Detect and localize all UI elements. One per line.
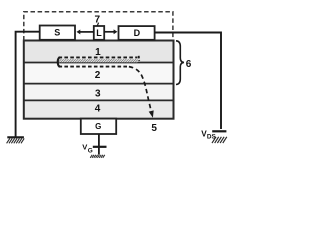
tick 7 to L [97,23,98,26]
ground left bar [7,136,24,138]
L box [94,26,104,40]
svg-text:5: 5 [151,123,157,134]
channel hatch strip [59,59,138,62]
VDS bar [212,130,226,132]
wire S to left [16,32,40,138]
svg-text:G: G [95,122,101,131]
svg-text:3: 3 [95,89,101,100]
layer 4 fill [24,100,174,118]
VDS ground hatch [212,137,227,143]
channel top dashed line [59,56,138,58]
svg-text:1: 1 [95,47,101,58]
G box [81,119,116,134]
arrow L to S [80,31,94,33]
svg-text:4: 4 [95,104,101,115]
dashed leader curve to 5 [129,67,152,113]
channel bottom dashed line [59,66,129,68]
layer 2 fill [24,62,174,83]
svg-text:G: G [88,147,93,154]
svg-text:DS: DS [207,134,217,141]
svg-text:2: 2 [95,70,101,81]
VG ground hatch [90,155,105,158]
wire D to VDS [155,33,221,130]
stack outline [24,41,174,119]
D box [119,26,155,40]
svg-text:D: D [134,28,141,38]
layer 1 fill [24,41,174,63]
layer boundary 3/4 [24,99,174,101]
arrow L to D [104,31,114,33]
ground left hatch [7,138,25,143]
svg-text:L: L [96,28,102,38]
channel left cap [58,57,60,66]
dashed device border 7 [24,12,173,41]
channel right corner dash [138,56,141,61]
S box [40,26,75,40]
layer boundary 1/2 [24,62,174,64]
layer 3 fill [24,84,174,101]
layer boundary 2/3 [24,83,174,85]
arrowhead 5 [149,110,154,117]
VG bar [93,146,107,148]
wire G down [98,134,100,155]
svg-text:6: 6 [186,59,192,70]
brace 6 [176,41,184,85]
svg-text:S: S [54,28,60,38]
